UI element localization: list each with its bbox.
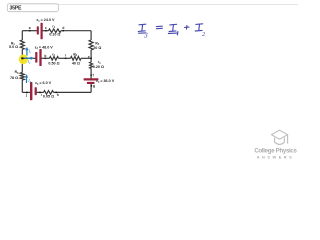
svg-text:ANSWERS: ANSWERS bbox=[257, 155, 295, 159]
svg-text:ε4 = 36.0 V: ε4 = 36.0 V bbox=[96, 79, 115, 84]
svg-text:ε3 = 6.0 V: ε3 = 6.0 V bbox=[35, 81, 51, 86]
svg-text:e: e bbox=[88, 55, 90, 59]
svg-text:b: b bbox=[44, 54, 46, 58]
svg-text:ε1 = 24.0 V: ε1 = 24.0 V bbox=[37, 18, 56, 23]
svg-text:0.05 Ω: 0.05 Ω bbox=[43, 94, 54, 98]
svg-text:0.50 Ω: 0.50 Ω bbox=[48, 62, 59, 66]
svg-text:78 Ω: 78 Ω bbox=[10, 76, 18, 80]
svg-text:c: c bbox=[45, 26, 47, 30]
svg-text:40 Ω: 40 Ω bbox=[72, 62, 80, 66]
svg-text:g: g bbox=[93, 84, 95, 88]
svg-text:i: i bbox=[65, 54, 66, 58]
svg-text:ε2 = 48.0 V: ε2 = 48.0 V bbox=[35, 45, 54, 50]
svg-text:3: 3 bbox=[143, 30, 148, 39]
svg-text:a: a bbox=[29, 26, 31, 30]
svg-text:d: d bbox=[62, 26, 64, 30]
svg-text:College Physics: College Physics bbox=[254, 148, 297, 155]
svg-text:i: i bbox=[41, 93, 42, 97]
svg-text:5.0 Ω: 5.0 Ω bbox=[9, 45, 18, 49]
svg-text:35PE: 35PE bbox=[10, 6, 22, 12]
svg-text:h: h bbox=[57, 93, 59, 97]
svg-text:20 Ω: 20 Ω bbox=[93, 46, 101, 50]
svg-text:j: j bbox=[25, 93, 27, 97]
svg-text:0.20 Ω: 0.20 Ω bbox=[93, 65, 104, 69]
svg-text:0.10 Ω: 0.10 Ω bbox=[49, 33, 60, 37]
